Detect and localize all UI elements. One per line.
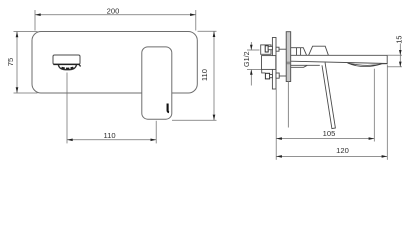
dim 200 extension lines — [34, 10, 36, 31]
svg-text:200: 200 — [107, 6, 120, 15]
svg-text:75: 75 — [6, 58, 15, 66]
ext line x=387.3 (spout tip) — [386, 65, 388, 160]
spout lower cover 2 — [291, 65, 308, 67]
top pipe to plate line — [279, 48, 286, 50]
svg-text:110: 110 — [200, 69, 209, 81]
spout-plate junction shade — [287, 62, 291, 65]
spout underside cup — [58, 64, 76, 69]
valve stem bar — [272, 38, 276, 90]
ext line x=276 (wall face) — [275, 90, 277, 160]
handle base trapezoid — [309, 46, 329, 55]
dim 75 extension lines — [14, 31, 38, 33]
neck top line — [291, 47, 301, 49]
bottom inlet flange — [265, 73, 269, 79]
spout top edge — [291, 54, 388, 56]
bottom inlet pipe — [270, 75, 273, 78]
neck joint line — [296, 48, 298, 56]
dim 200 line — [35, 14, 196, 16]
spout aerator dots — [62, 68, 74, 69]
spout tip edge — [380, 55, 388, 64]
svg-text:120: 120 — [336, 146, 349, 155]
plate lower edge line — [287, 82, 289, 128]
dim 15 extension lines — [387, 54, 402, 56]
G1/2 extension lines — [247, 49, 260, 51]
svg-text:15: 15 — [395, 36, 404, 44]
wall plate (front) — [32, 32, 197, 94]
dim 110 extension: handle centerline — [155, 121, 157, 144]
side dim 110 top extension — [198, 30, 217, 32]
spout body (front) — [53, 55, 80, 64]
valve top housing box — [261, 45, 271, 54]
body lower skirt — [262, 69, 266, 73]
handle groove tick — [168, 104, 169, 113]
dim 75 line — [16, 32, 18, 94]
handle (front) — [142, 47, 172, 119]
side dim 110 bottom extension — [172, 119, 217, 121]
bottom wall tab — [276, 73, 279, 78]
top wall tab — [276, 47, 279, 51]
G1/2 leader lines — [250, 42, 252, 50]
side dim 110 line — [213, 31, 215, 120]
svg-text:110: 110 — [104, 131, 116, 140]
cartridge cover — [301, 48, 307, 56]
svg-text:105: 105 — [323, 129, 336, 138]
ext line x=374.3 (outlet center) — [373, 69, 375, 142]
spout bottom edge — [53, 63, 79, 65]
spout bottom edge — [291, 61, 388, 63]
bottom pipe to plate line — [279, 75, 286, 77]
handle lever (side) — [322, 62, 335, 129]
svg-text:G1/2: G1/2 — [242, 51, 251, 67]
dim 15 line — [399, 44, 401, 67]
dim 120 line — [276, 155, 387, 157]
dim 110 line — [67, 139, 156, 141]
top inlet pipe — [268, 46, 272, 49]
top inlet flange — [265, 46, 268, 52]
dim 110 extension: spout centerline — [66, 73, 68, 144]
wall plate (side) — [286, 32, 291, 82]
spout outlet lip — [348, 63, 382, 67]
valve body — [262, 56, 276, 70]
spout lower cover line — [291, 64, 320, 66]
spout corner tick — [79, 65, 80, 67]
dim 105 line — [276, 138, 374, 140]
